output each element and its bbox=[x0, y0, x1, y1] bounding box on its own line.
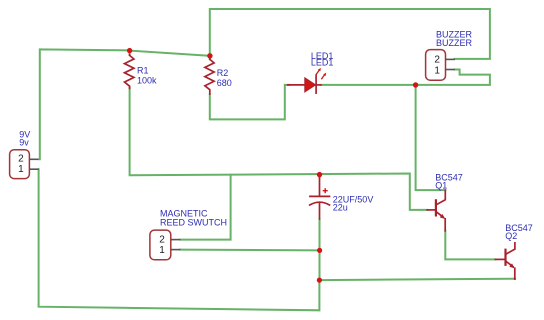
svg-text:2: 2 bbox=[18, 153, 24, 164]
svg-text:1: 1 bbox=[18, 164, 24, 175]
svg-text:2: 2 bbox=[434, 55, 440, 66]
svg-text:REED SWUTCH: REED SWUTCH bbox=[160, 218, 227, 228]
svg-text:LED1: LED1 bbox=[311, 57, 334, 67]
svg-text:9v: 9v bbox=[19, 138, 29, 148]
svg-text:1: 1 bbox=[434, 65, 440, 76]
svg-text:R1: R1 bbox=[137, 65, 149, 75]
svg-text:Q1: Q1 bbox=[435, 181, 447, 191]
svg-text:Q2: Q2 bbox=[505, 231, 517, 241]
svg-text:BUZZER: BUZZER bbox=[436, 38, 473, 48]
svg-text:100k: 100k bbox=[137, 75, 157, 85]
svg-text:R2: R2 bbox=[217, 68, 229, 78]
svg-text:1: 1 bbox=[159, 245, 165, 256]
svg-text:22u: 22u bbox=[333, 203, 348, 213]
svg-text:680: 680 bbox=[217, 78, 232, 88]
